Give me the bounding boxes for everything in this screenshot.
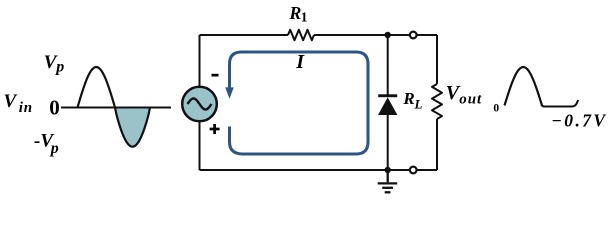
svg-text:I: I [295, 51, 305, 73]
svg-text:in: in [19, 100, 33, 116]
svg-text:−0.7V: −0.7V [551, 110, 607, 130]
svg-text:V: V [4, 91, 18, 112]
svg-text:p: p [49, 140, 59, 157]
svg-text:out: out [459, 91, 482, 107]
svg-text:0: 0 [49, 96, 60, 120]
svg-text:R: R [402, 89, 414, 108]
svg-text:p: p [54, 59, 64, 76]
svg-text:0: 0 [493, 103, 499, 115]
svg-text:L: L [414, 97, 423, 112]
svg-text:R: R [288, 3, 301, 23]
svg-text:1: 1 [301, 10, 308, 25]
